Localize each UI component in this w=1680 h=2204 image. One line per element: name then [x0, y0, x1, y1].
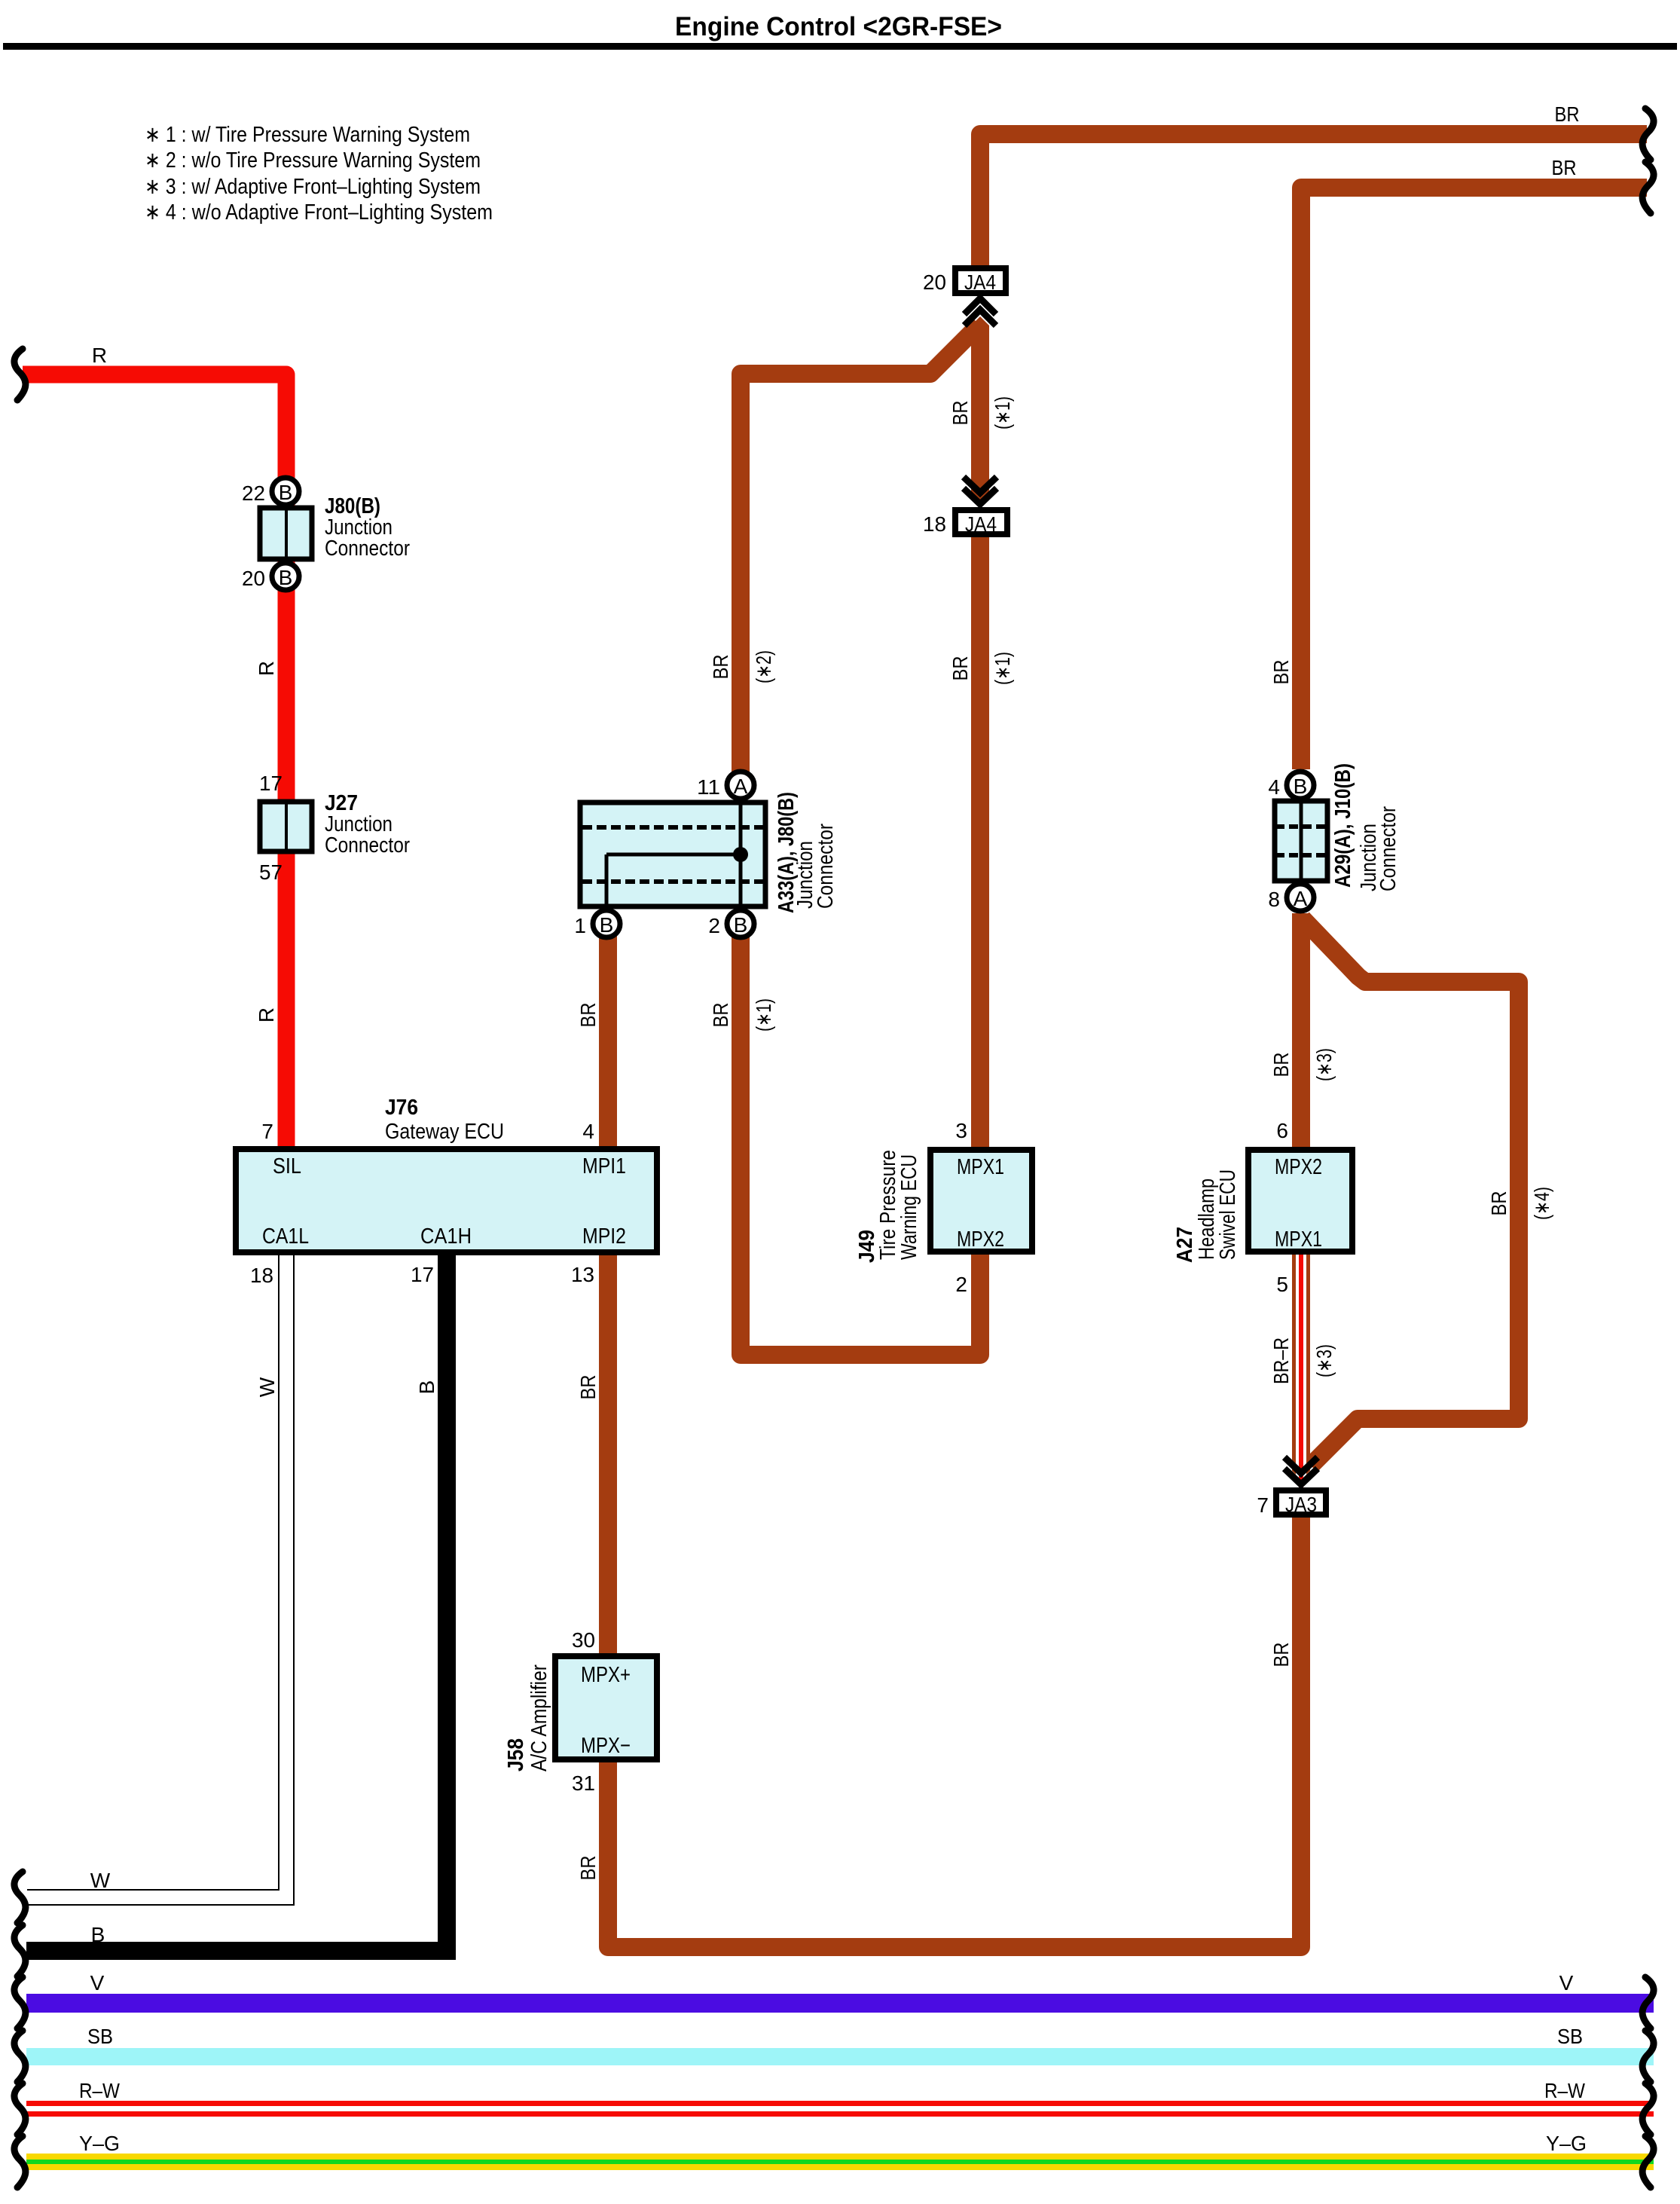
- labels for J76 gateway ECU: [250, 1096, 626, 1287]
- svg-text:JA4: JA4: [964, 271, 996, 294]
- junction connector J80(B): [260, 478, 312, 590]
- svg-text:A: A: [1294, 887, 1308, 910]
- svg-text:57: 57: [259, 861, 283, 884]
- svg-text:4: 4: [1268, 775, 1280, 799]
- svg-text:BR: BR: [709, 1003, 732, 1028]
- labels for J27: [259, 772, 410, 884]
- wire BR-R A27 MPX1 down to JA3: [1292, 1255, 1310, 1487]
- svg-text:V: V: [1559, 1971, 1574, 1995]
- svg-text:Connector: Connector: [325, 833, 410, 857]
- break mark wire SB left: [14, 2031, 26, 2082]
- svg-text:(∗4): (∗4): [1530, 1187, 1553, 1220]
- tire pressure warning ECU J49 box: [930, 1150, 1032, 1252]
- svg-text:3: 3: [955, 1119, 967, 1142]
- svg-text:BR–R: BR–R: [1269, 1337, 1293, 1384]
- break mark wire R-W right: [1642, 2083, 1654, 2135]
- svg-text:R: R: [255, 661, 278, 676]
- svg-text:30: 30: [572, 1628, 595, 1652]
- wire BR JA4 18 down to J49 MPX1: [971, 537, 989, 1147]
- svg-text:∗ 2 : w/o Tire Pressure Warnin: ∗ 2 : w/o Tire Pressure Warning System: [145, 148, 481, 173]
- svg-text:1: 1: [574, 914, 586, 937]
- wire R from left edge to J76 SIL: [23, 374, 286, 1146]
- wire BR top right to JA4 20 (via diagonal from A33 pin 11): [980, 134, 1647, 265]
- svg-text:A29(A), J10(B): A29(A), J10(B): [1331, 763, 1355, 888]
- svg-text:Connector: Connector: [1376, 806, 1401, 891]
- break mark wire Y-G left: [14, 2136, 26, 2187]
- break mark wire W left: [14, 1872, 26, 1923]
- break mark wire V right: [1642, 1977, 1654, 2028]
- svg-text:20: 20: [923, 271, 946, 294]
- svg-text:BR: BR: [576, 1856, 600, 1881]
- svg-text:A: A: [734, 775, 748, 798]
- svg-text:W: W: [255, 1377, 279, 1397]
- wire break squiggles left edge: [14, 349, 26, 2187]
- wire BR J76 MPI2 down to J58 MPX+: [599, 1255, 617, 1653]
- svg-text:Gateway ECU: Gateway ECU: [385, 1120, 504, 1144]
- svg-text:∗ 1 : w/ Tire Pressure Warning: ∗ 1 : w/ Tire Pressure Warning System: [145, 123, 470, 147]
- pin labels for JA connectors: [923, 271, 1269, 1517]
- svg-text:8: 8: [1268, 888, 1280, 911]
- junction connector J27: [260, 802, 312, 851]
- svg-text:MPX−: MPX−: [581, 1734, 631, 1758]
- svg-text:Engine Control <2GR-FSE>: Engine Control <2GR-FSE>: [675, 12, 1002, 41]
- wire BR loop *4: [1303, 919, 1519, 1466]
- labels for A29: [1268, 763, 1401, 911]
- svg-text:(∗1): (∗1): [752, 998, 775, 1032]
- svg-text:BR: BR: [948, 656, 972, 681]
- svg-text:SIL: SIL: [273, 1154, 301, 1178]
- svg-text:∗ 4 : w/o Adaptive Front–Light: ∗ 4 : w/o Adaptive Front–Lighting System: [145, 200, 493, 225]
- junction connector A33(A), J80(B): [580, 772, 765, 937]
- svg-text:7: 7: [261, 1120, 273, 1143]
- svg-text:20: 20: [242, 567, 265, 590]
- break mark wire BR right 2: [1642, 162, 1654, 213]
- svg-text:5: 5: [1276, 1273, 1288, 1296]
- labels for A27 headlamp swivel ECU: [1173, 1119, 1322, 1296]
- svg-text:BR: BR: [1269, 1643, 1293, 1668]
- svg-text:MPX+: MPX+: [581, 1663, 631, 1687]
- svg-text:JA3: JA3: [1285, 1493, 1317, 1516]
- headlamp swivel ECU A27 box: [1248, 1150, 1352, 1252]
- title Engine Control 2GR-FSE: [3, 12, 1677, 50]
- svg-text:MPX2: MPX2: [957, 1227, 1004, 1252]
- svg-text:18: 18: [250, 1264, 273, 1287]
- svg-text:22: 22: [242, 481, 265, 505]
- svg-text:Y–G: Y–G: [79, 2132, 120, 2155]
- svg-text:6: 6: [1276, 1119, 1288, 1142]
- labels for J80(B): [242, 481, 410, 590]
- wire BR J49 MPX2 loop to A33 pin 2: [741, 924, 980, 1355]
- break mark wire B left: [14, 1925, 26, 1976]
- connector JA4 pin 18: [955, 477, 1007, 536]
- svg-text:SB: SB: [1557, 2025, 1583, 2048]
- svg-text:CA1H: CA1H: [420, 1224, 472, 1249]
- svg-text:Connector: Connector: [814, 824, 838, 909]
- labels for J49 tire pressure warning ECU: [855, 1119, 1004, 1296]
- svg-text:18: 18: [923, 512, 946, 536]
- svg-text:R–W: R–W: [79, 2079, 120, 2102]
- svg-text:(∗3): (∗3): [1312, 1344, 1336, 1377]
- svg-text:(∗3): (∗3): [1312, 1048, 1336, 1081]
- svg-text:Connector: Connector: [325, 536, 410, 561]
- svg-text:B: B: [415, 1380, 438, 1395]
- svg-text:Warning ECU: Warning ECU: [897, 1154, 921, 1260]
- wire color labels rotated: [255, 396, 1553, 1881]
- connector JA3 pin 7: [1276, 1457, 1326, 1516]
- svg-text:BR: BR: [1269, 1053, 1293, 1078]
- svg-text:BR: BR: [576, 1375, 600, 1400]
- svg-text:CA1L: CA1L: [262, 1224, 309, 1249]
- svg-text:MPI1: MPI1: [582, 1154, 626, 1178]
- svg-text:A27: A27: [1173, 1227, 1197, 1263]
- A/C amplifier J58 box: [555, 1656, 657, 1759]
- svg-text:∗ 3 : w/ Adaptive Front–Lighti: ∗ 3 : w/ Adaptive Front–Lighting System: [145, 175, 481, 199]
- svg-text:BR: BR: [1552, 156, 1577, 179]
- break mark wire R-W left: [14, 2083, 26, 2135]
- svg-text:MPI2: MPI2: [582, 1224, 626, 1249]
- svg-text:17: 17: [411, 1263, 434, 1286]
- wire Y-G bus: [26, 2154, 1654, 2170]
- svg-text:Swivel ECU: Swivel ECU: [1216, 1169, 1240, 1260]
- svg-text:BR: BR: [948, 401, 972, 426]
- svg-text:BR: BR: [709, 655, 732, 680]
- wire BR A33 pin 1 down to J76 MPI1: [599, 924, 617, 1146]
- svg-text:B: B: [1294, 775, 1308, 798]
- wire break squiggles right edge: [1642, 109, 1654, 2187]
- svg-text:BR: BR: [1487, 1191, 1510, 1216]
- svg-text:B: B: [91, 1923, 105, 1946]
- svg-text:17: 17: [259, 772, 283, 795]
- wire V bus: [26, 1994, 1654, 2013]
- svg-text:(∗1): (∗1): [991, 396, 1014, 429]
- svg-text:13: 13: [571, 1263, 594, 1286]
- wire BR (*2) from A33 pin 11 up and right with diagonal into JA4 20: [741, 325, 979, 785]
- wire BR (*1) segment between JA4 20 and JA4 18: [971, 316, 989, 500]
- junction connector A29(A), J10(B): [1275, 772, 1327, 911]
- break mark wire R left: [14, 349, 26, 400]
- wire BR J58 MPX- to JA3: [608, 1518, 1301, 1947]
- break mark wire V left: [14, 1977, 26, 2028]
- svg-text:2: 2: [708, 914, 720, 937]
- svg-text:(∗2): (∗2): [752, 650, 775, 683]
- wire BR second top right to A29 pin 4: [1301, 188, 1647, 769]
- wire W J76 CA1L to left edge: [27, 1255, 286, 1897]
- svg-text:A/C Amplifier: A/C Amplifier: [527, 1664, 551, 1771]
- svg-text:BR: BR: [1269, 660, 1293, 685]
- legend notes: [145, 123, 493, 225]
- svg-text:MPX1: MPX1: [957, 1155, 1004, 1179]
- svg-text:31: 31: [572, 1771, 595, 1795]
- svg-text:B: B: [734, 913, 748, 937]
- svg-text:4: 4: [582, 1120, 594, 1143]
- svg-text:MPX1: MPX1: [1275, 1227, 1322, 1252]
- svg-text:B: B: [279, 481, 293, 504]
- svg-text:MPX2: MPX2: [1275, 1155, 1322, 1179]
- svg-text:R: R: [255, 1007, 278, 1023]
- svg-text:W: W: [90, 1869, 111, 1892]
- break mark wire SB right: [1642, 2031, 1654, 2082]
- labels for A33: [574, 775, 838, 937]
- break mark wire Y-G right: [1642, 2136, 1654, 2187]
- labels for J58 A/C amplifier: [504, 1628, 631, 1795]
- svg-text:11: 11: [697, 775, 720, 799]
- svg-text:Y–G: Y–G: [1546, 2132, 1587, 2155]
- node junction dot: [733, 847, 748, 862]
- svg-text:B: B: [279, 566, 293, 589]
- svg-text:SB: SB: [87, 2025, 113, 2048]
- svg-text:R: R: [92, 344, 107, 367]
- svg-text:V: V: [90, 1971, 105, 1995]
- svg-text:2: 2: [955, 1273, 967, 1296]
- connector JA4 pin 20: [955, 268, 1006, 326]
- svg-text:J76: J76: [385, 1096, 418, 1120]
- svg-text:BR: BR: [576, 1003, 600, 1028]
- break mark wire BR right 1: [1642, 109, 1654, 160]
- wire SB bus: [26, 2048, 1654, 2065]
- svg-text:(∗1): (∗1): [991, 652, 1014, 685]
- svg-text:7: 7: [1257, 1493, 1269, 1517]
- svg-text:R–W: R–W: [1544, 2079, 1585, 2102]
- svg-text:BR: BR: [1555, 102, 1580, 126]
- svg-text:JA4: JA4: [965, 512, 997, 536]
- svg-text:B: B: [600, 913, 614, 937]
- wire BR A29 pin 8 down to A27 MPX2: [1292, 913, 1310, 1147]
- wire R-W bus: [26, 2101, 1654, 2117]
- gateway ECU J76 box: [236, 1149, 657, 1252]
- svg-text:J58: J58: [504, 1738, 528, 1771]
- wire B J76 CA1H to left edge: [26, 1255, 447, 1951]
